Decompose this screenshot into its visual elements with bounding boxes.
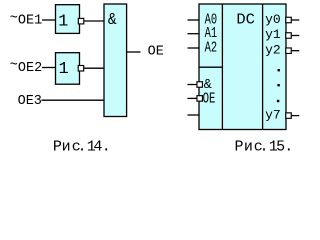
inverter D2 body bbox=[56, 53, 80, 84]
svg-text:OE: OE bbox=[148, 45, 164, 60]
svg-text:OE1: OE1 bbox=[18, 14, 42, 29]
inverter D1 body bbox=[56, 5, 80, 34]
svg-text:y2: y2 bbox=[265, 42, 281, 57]
wire output y0 bbox=[292, 19, 300, 21]
wire output y2 bbox=[292, 50, 300, 52]
AND gate body bbox=[104, 4, 127, 117]
wire input A2 bbox=[188, 47, 200, 49]
decoder DC divider address/enable sections bbox=[199, 66, 222, 68]
wire enable input & bbox=[188, 84, 198, 86]
svg-text:OE2: OE2 bbox=[18, 61, 42, 76]
wire AND gate output bbox=[127, 51, 141, 53]
enable input OE inversion square bbox=[197, 96, 203, 102]
wire ~OE1 to inverter D1 bbox=[42, 19, 56, 21]
svg-text:~: ~ bbox=[10, 59, 18, 74]
ellipsis dot 3 bbox=[277, 100, 279, 102]
svg-text:A2: A2 bbox=[205, 40, 218, 57]
svg-text:&: & bbox=[108, 11, 117, 30]
wire inverter D1 output to AND gate bbox=[84, 20, 105, 22]
wire output y7 bbox=[292, 115, 300, 117]
decoder DC body bbox=[199, 4, 286, 130]
svg-text:1: 1 bbox=[58, 13, 68, 32]
inverter D2 inversion square bbox=[78, 66, 84, 72]
ellipsis dot 2 bbox=[277, 84, 279, 86]
wire inverter D2 output to AND gate bbox=[84, 67, 105, 69]
wire output y1 bbox=[292, 35, 300, 37]
wire input A0 bbox=[188, 19, 200, 21]
ellipsis dot 1 bbox=[278, 69, 280, 71]
svg-text:1: 1 bbox=[59, 60, 69, 79]
wire OE3 to AND gate bbox=[42, 99, 105, 101]
svg-text:DC: DC bbox=[236, 11, 255, 28]
inverter D1 inversion square bbox=[78, 18, 84, 24]
wire input A1 bbox=[188, 33, 200, 35]
svg-text:Рис.14.: Рис.14. bbox=[53, 138, 111, 155]
svg-text:Рис.15.: Рис.15. bbox=[235, 139, 294, 156]
svg-text:~: ~ bbox=[10, 11, 18, 26]
enable input & inversion square bbox=[197, 82, 203, 88]
wire ~OE2 to inverter D2 bbox=[42, 67, 56, 69]
output y7 inversion square bbox=[286, 113, 292, 119]
decoder DC divider output column bbox=[262, 4, 264, 130]
output y1 inversion square bbox=[286, 33, 292, 39]
output y2 inversion square bbox=[286, 48, 292, 54]
svg-text:y1: y1 bbox=[265, 27, 281, 42]
wire enable input unlabeled bbox=[188, 114, 200, 116]
svg-text:y0: y0 bbox=[265, 12, 281, 27]
decoder DC divider address column bbox=[221, 4, 223, 130]
svg-text:y7: y7 bbox=[265, 107, 281, 122]
output y0 inversion square bbox=[286, 17, 292, 23]
svg-text:OE: OE bbox=[203, 90, 216, 107]
svg-text:OE3: OE3 bbox=[18, 94, 42, 109]
wire enable input OE bbox=[188, 97, 198, 99]
